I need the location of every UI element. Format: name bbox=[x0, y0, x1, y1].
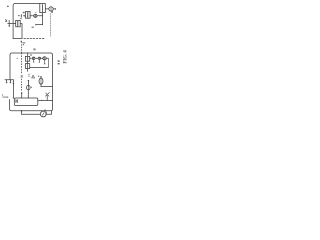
lens C arrowhead bbox=[41, 57, 43, 59]
lens B inner bar bbox=[38, 57, 40, 59]
tube2 oval bbox=[39, 78, 43, 84]
tube inner bar bbox=[27, 86, 29, 90]
bottom external drop bbox=[21, 111, 23, 114]
wire left vertical bbox=[12, 15, 14, 39]
sensor electrode element bbox=[8, 21, 10, 26]
arrowhead beam left bbox=[23, 15, 25, 17]
amplifier rect bbox=[14, 98, 38, 106]
bottom external wire left bbox=[22, 113, 41, 115]
tube oval bbox=[27, 85, 31, 89]
junction dot on wire bbox=[41, 100, 42, 101]
wire bottom left solid bbox=[13, 38, 22, 40]
wire rect to right edge bbox=[38, 99, 53, 101]
wire lens B to C bbox=[40, 57, 43, 59]
node dot left of B3 bbox=[17, 58, 18, 59]
lens A stub dot bbox=[33, 60, 35, 62]
label 15 blob bbox=[23, 12, 25, 14]
label 17 dot bbox=[21, 41, 22, 42]
pot element vertical bbox=[46, 96, 48, 101]
tube2 stub down bbox=[40, 84, 42, 86]
stub B3-B4 bbox=[27, 61, 29, 63]
lower enclosure box bbox=[10, 53, 53, 111]
chopper glyph right bbox=[28, 74, 30, 77]
inner bars bbox=[16, 100, 17, 103]
lens arrowhead bbox=[32, 15, 34, 17]
label 10 dot bbox=[7, 6, 9, 8]
terminal dot bbox=[55, 8, 57, 10]
electrode stub 2 bbox=[9, 80, 11, 82]
label arrow outside left bbox=[2, 94, 3, 95]
bottom junction dot bbox=[21, 110, 23, 112]
beam dashed bottom horizontal bbox=[24, 38, 45, 40]
wire B4 row bbox=[30, 67, 49, 69]
wire B2 to corner bbox=[20, 24, 22, 39]
riser into B3 bbox=[27, 53, 29, 56]
arrowhead down bbox=[13, 83, 15, 85]
prism triangle bbox=[32, 75, 35, 78]
wire top horizontal bbox=[13, 4, 40, 16]
lens A circle bbox=[32, 57, 35, 60]
lens inner bar bbox=[34, 14, 36, 17]
wire tube2 to right edge bbox=[41, 86, 53, 88]
lens A arrowhead bbox=[31, 58, 33, 60]
lens circle bbox=[34, 14, 37, 17]
label 51 blob outside bbox=[58, 60, 60, 61]
laser tube rect R1 bbox=[40, 4, 46, 13]
riser lens row down bbox=[47, 58, 49, 67]
label 45 blob bbox=[20, 18, 22, 19]
lens C stub dot bbox=[44, 60, 46, 63]
stub below B4 bbox=[27, 69, 29, 72]
tube2 inner bar bbox=[40, 79, 42, 84]
beam dotted below chopper bbox=[21, 79, 23, 92]
label 24 blob bbox=[32, 27, 34, 28]
laser tube inner bar bbox=[42, 5, 44, 12]
label 21 squiggle bbox=[5, 19, 7, 21]
lens B circle bbox=[38, 57, 40, 59]
meter circle bbox=[40, 111, 46, 117]
wire lens A to B bbox=[35, 57, 37, 59]
label 16 tick bbox=[35, 11, 36, 14]
polarizer plate bar bbox=[20, 15, 22, 18]
label dot right of oval bbox=[31, 87, 32, 88]
inner dot bbox=[16, 100, 17, 101]
wire lens to riser bbox=[37, 15, 43, 17]
wire left row bbox=[8, 23, 16, 25]
cell box B3 inner bar bbox=[27, 57, 29, 60]
electrode stub 1 bbox=[6, 80, 8, 82]
lens B arrowhead bbox=[37, 58, 39, 60]
lens row wire from B3 bbox=[30, 57, 31, 59]
cell box B2 inner bar bbox=[17, 21, 19, 26]
label 26 blob bbox=[33, 48, 35, 50]
svg-text:FIG. 4: FIG. 4 bbox=[63, 50, 68, 64]
tube2 top dot bbox=[40, 76, 42, 78]
cell box B1 inner bar bbox=[27, 12, 29, 17]
left edge wire row bbox=[5, 79, 14, 81]
node dot above rect bbox=[21, 92, 23, 94]
cell box B2 bbox=[16, 20, 21, 26]
mark near triangle bbox=[38, 76, 39, 77]
lamp L1 filament line bbox=[50, 7, 52, 11]
label 28 blob bbox=[30, 54, 32, 55]
label above meter bbox=[44, 109, 46, 112]
riser into rect bbox=[21, 93, 23, 98]
wire lens C to riser bbox=[46, 57, 48, 59]
cell box B4 inner bar bbox=[27, 64, 29, 67]
node dot bbox=[13, 97, 14, 98]
label 20 marks bbox=[23, 42, 25, 44]
wire R1 down bbox=[42, 13, 44, 25]
stub oval to rect bbox=[27, 90, 29, 98]
wire B1 to lens bbox=[30, 15, 32, 17]
beam dash segment bbox=[18, 15, 19, 17]
bottom external wire right bbox=[46, 111, 52, 114]
wire R1 to lamp bbox=[45, 8, 54, 10]
wire down with arrow bbox=[12, 80, 14, 98]
lamp L1 circle bbox=[49, 7, 53, 11]
lens A inner bar bbox=[33, 57, 35, 59]
beam dashed inside box bbox=[21, 53, 23, 74]
meter inner mark bbox=[42, 113, 44, 116]
cell box B1 bbox=[26, 12, 31, 19]
arrow mid pointing left bbox=[37, 24, 42, 26]
lens B stub dot bbox=[38, 59, 40, 61]
cell box B3 bbox=[25, 56, 29, 61]
beam dotted riser into lower box bbox=[21, 42, 23, 53]
pot crossing marks bbox=[45, 93, 49, 97]
lens C circle bbox=[43, 57, 46, 60]
lens C inner bar bbox=[44, 57, 46, 60]
chopper glyph left bbox=[21, 75, 23, 78]
label 18 blob bbox=[51, 11, 53, 13]
tube stub with dot bbox=[28, 80, 29, 81]
cell box B4 bbox=[25, 64, 29, 69]
beam dashed right vertical bbox=[50, 13, 52, 36]
label right of meter bbox=[45, 112, 47, 114]
